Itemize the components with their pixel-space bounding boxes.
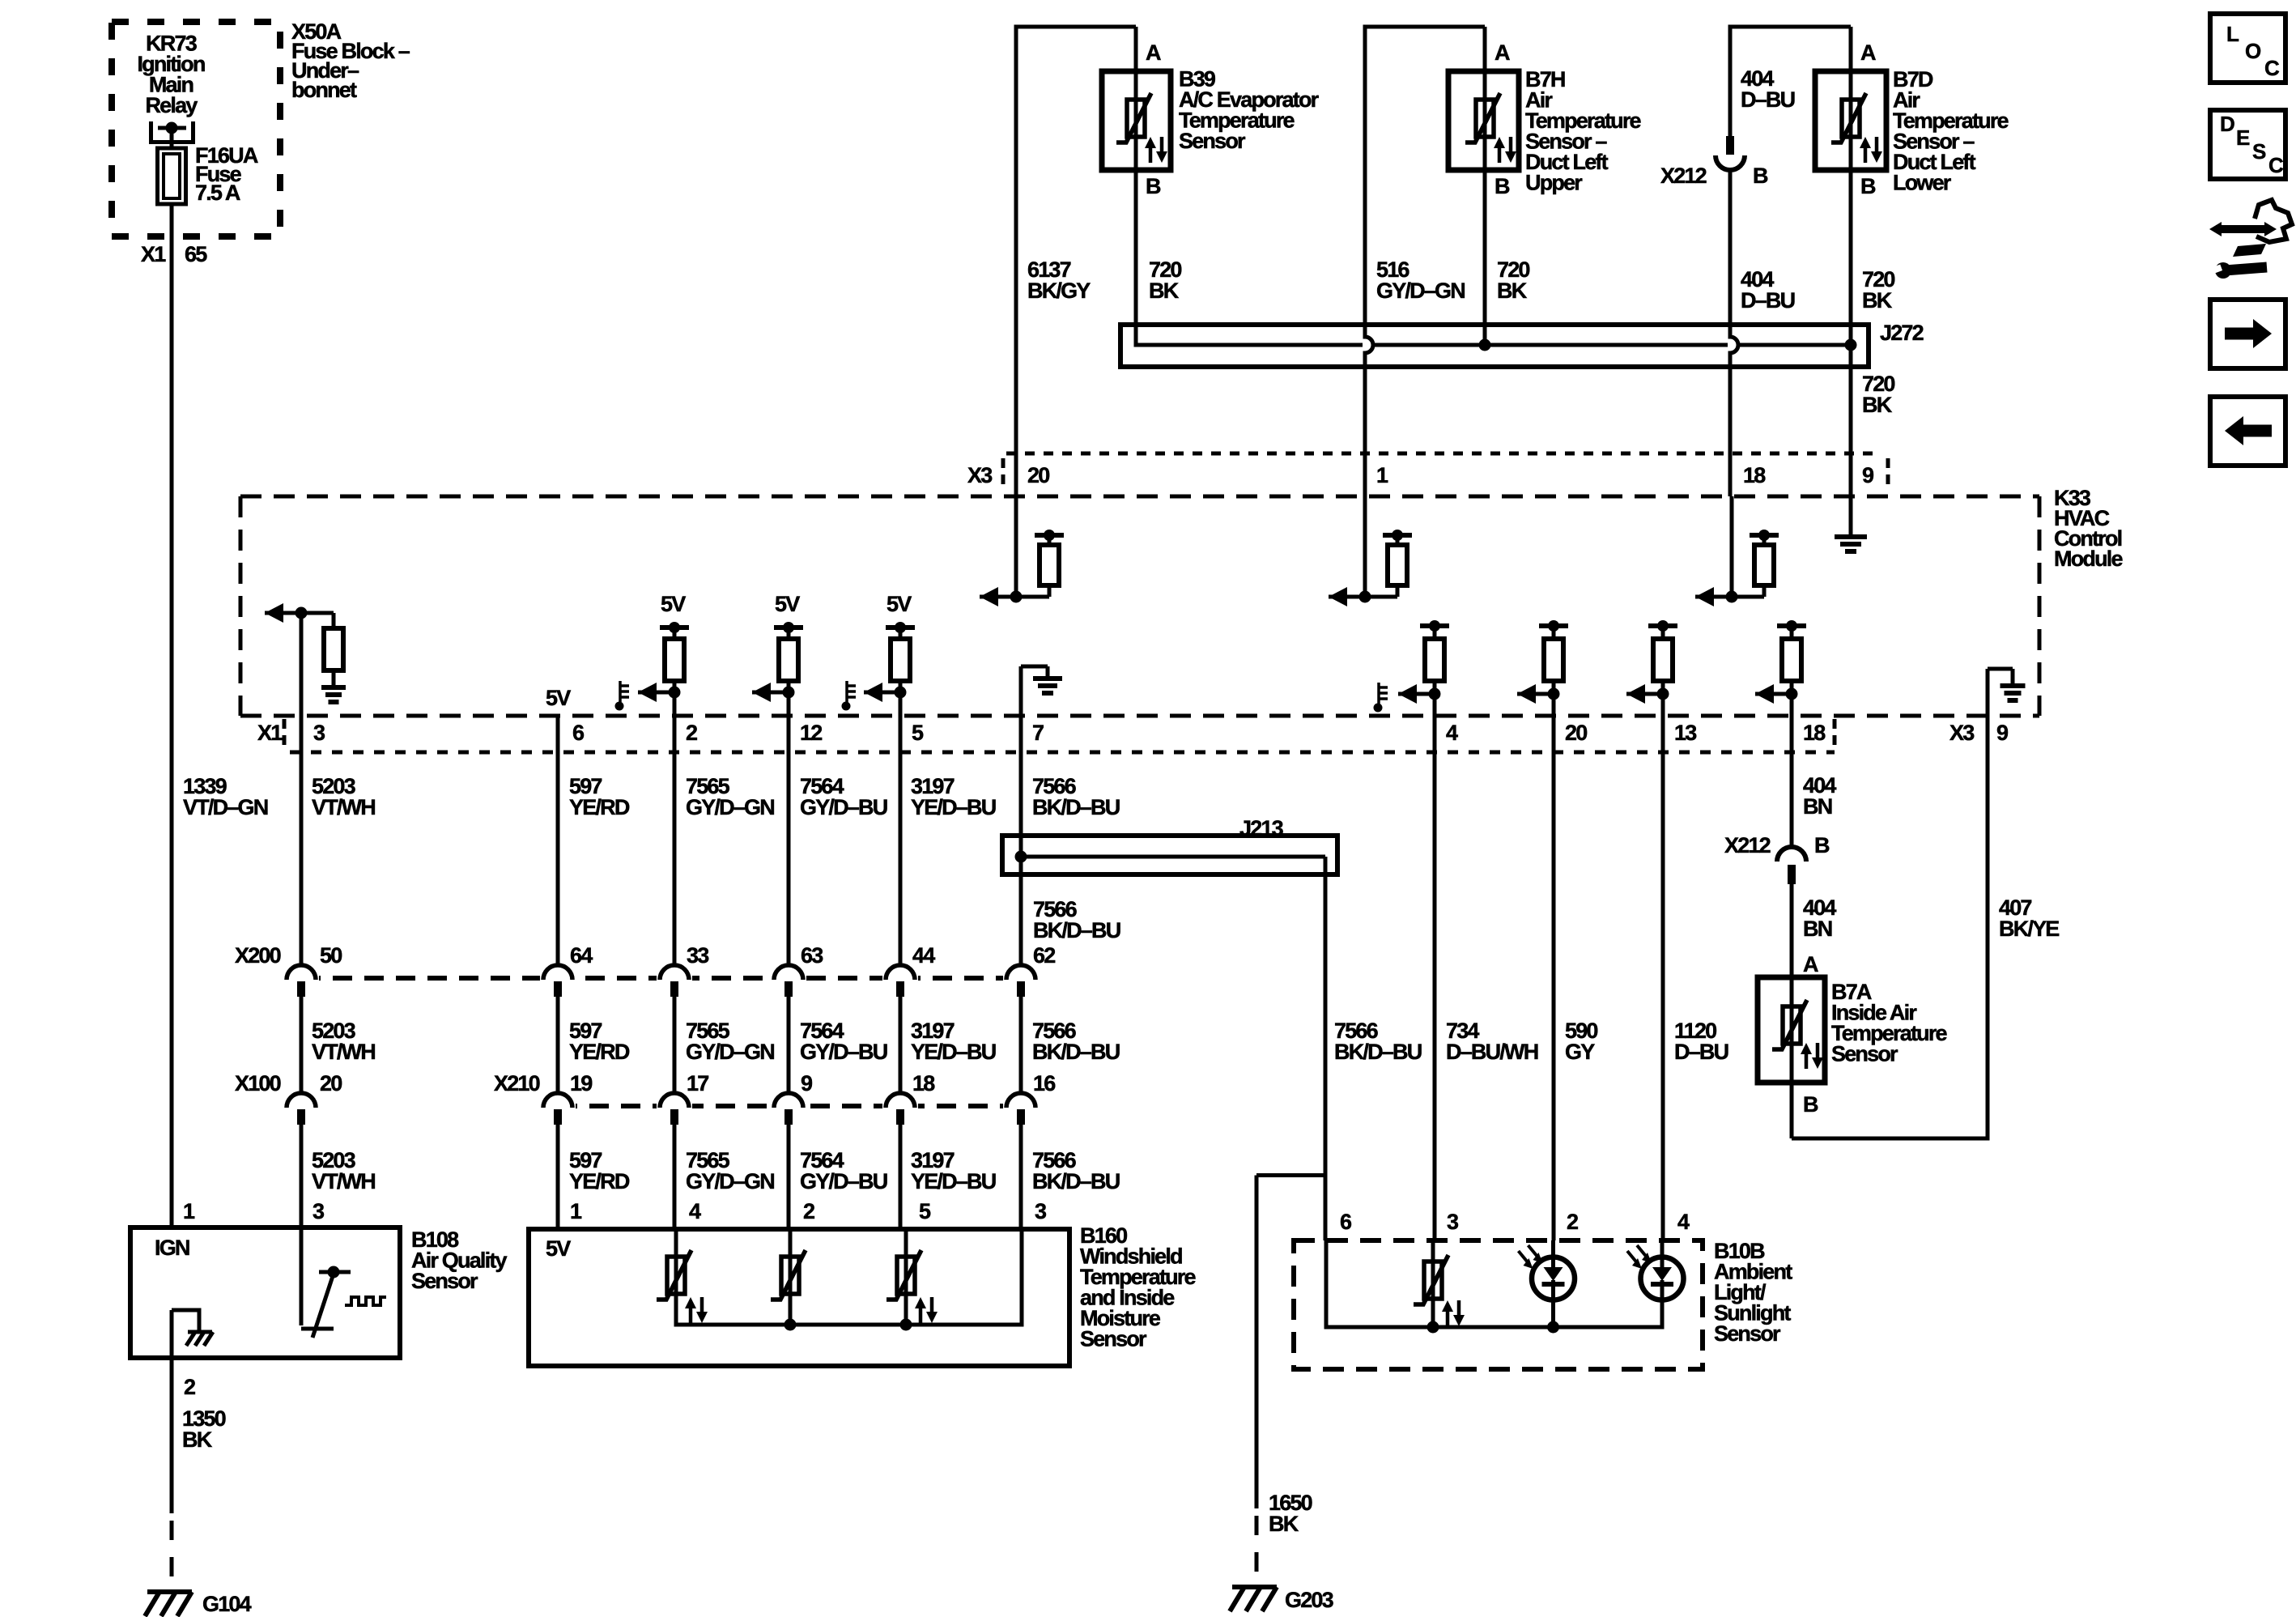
connector X3 top separator <box>1886 458 1890 491</box>
arrows in B7A <box>1801 1043 1823 1069</box>
svg-text:B: B <box>1860 174 1876 198</box>
fuse block X50A label <box>291 19 410 102</box>
junction J272 box <box>1120 325 1869 367</box>
svg-text:62: 62 <box>1033 943 1055 968</box>
wire 516 GY/D-GN top run <box>1365 25 1485 497</box>
wire label 407 BK/YE <box>1999 896 2059 941</box>
svg-text:9: 9 <box>1996 721 2009 745</box>
svg-text:A: A <box>1803 952 1818 976</box>
svg-text:16: 16 <box>1033 1071 1056 1096</box>
wire 734 D-BU/WH <box>1433 696 1437 1240</box>
pin label B (B7D) <box>1860 174 1876 198</box>
pin label 63 (X200) <box>801 943 823 968</box>
wire 1350 BK <box>170 1358 174 1585</box>
svg-text:BN: BN <box>1803 794 1832 819</box>
sensor B108 label <box>411 1227 508 1293</box>
wire 5203 VT/WH (seg1) <box>300 615 304 965</box>
pin label 3 (B160) <box>1035 1199 1047 1223</box>
pin label 3 (X1 bottom) <box>313 721 325 745</box>
svg-text:VT/WH: VT/WH <box>312 1040 375 1064</box>
icon forward-arrow box <box>2210 300 2285 368</box>
connector X200 pin 62 arc <box>1003 965 1039 997</box>
svg-text:G203: G203 <box>1285 1588 1334 1612</box>
svg-text:20: 20 <box>1565 721 1587 745</box>
svg-text:X100: X100 <box>235 1071 281 1096</box>
arrows thermistor 1 B160 <box>685 1297 708 1323</box>
svg-text:20: 20 <box>1027 463 1049 487</box>
connector X100 label <box>235 1071 281 1096</box>
pin label 9 (X3 top) <box>1862 463 1874 487</box>
svg-text:VT/WH: VT/WH <box>312 795 375 819</box>
relay KR73 label <box>137 32 204 118</box>
svg-text:X1: X1 <box>257 721 283 745</box>
svg-text:BK/YE: BK/YE <box>1999 917 2059 941</box>
svg-text:X3: X3 <box>967 463 993 487</box>
wire 597 YE/RD (seg1) <box>556 715 560 965</box>
svg-text:9: 9 <box>801 1071 813 1096</box>
svg-text:5V: 5V <box>546 1236 571 1261</box>
junction J213 label <box>1239 816 1284 840</box>
junction J213 bus <box>1015 851 1326 863</box>
svg-text:5V: 5V <box>661 592 686 616</box>
thermistor in B39 <box>1116 71 1151 170</box>
connector X1 bottom separator <box>1833 719 1837 750</box>
pin label 6 (X1 bottom) <box>572 721 585 745</box>
svg-text:GY/D–GN: GY/D–GN <box>686 1169 774 1193</box>
wire 3197 YE/D-BU (seg1) <box>899 694 903 965</box>
connector X1 bottom dotted line <box>290 751 1835 755</box>
pin label 33 (X200) <box>687 943 709 968</box>
pin label B (B7H) <box>1495 174 1510 198</box>
wire X3-9 internal ground <box>1835 496 1867 551</box>
wire X3-18 internal + resistor <box>1695 496 1779 606</box>
svg-text:18: 18 <box>912 1071 935 1096</box>
svg-text:bonnet: bonnet <box>291 78 357 102</box>
wire 6137 BK/GY top run <box>1016 25 1136 497</box>
pin label 7 (X1 bottom) <box>1032 721 1044 745</box>
pin label 12 (X1 bottom) <box>800 721 822 745</box>
connector X1 bottom label <box>257 719 284 750</box>
svg-text:D–BU/WH: D–BU/WH <box>1446 1040 1538 1064</box>
sensor B10B dashed box <box>1294 1240 1703 1369</box>
sensor B7D label <box>1893 67 2009 195</box>
svg-text:BK: BK <box>182 1427 213 1452</box>
wire 590 GY <box>1552 696 1556 1240</box>
icon back-arrow box <box>2210 397 2285 466</box>
svg-text:YE/RD: YE/RD <box>569 795 630 819</box>
svg-text:BK: BK <box>1862 393 1893 417</box>
pin label 44 (X200) <box>912 943 935 968</box>
svg-text:S: S <box>2252 139 2266 164</box>
svg-text:YE/D–BU: YE/D–BU <box>911 795 996 819</box>
svg-text:64: 64 <box>570 943 593 968</box>
bus in B10B <box>1326 1240 1662 1334</box>
wire 7564 seg2 <box>787 996 791 1095</box>
pin label 5 (X1 bottom) <box>912 721 924 745</box>
arrows in B39 <box>1145 137 1167 163</box>
wire 1120 D-BU <box>1661 696 1665 1240</box>
wire label 1120 <box>1674 1019 1728 1064</box>
wire label 7566 a <box>1032 774 1120 819</box>
pin label 64 (X200) <box>570 943 593 968</box>
pin label A (B39) <box>1146 40 1161 65</box>
svg-text:BK/D–BU: BK/D–BU <box>1032 1040 1120 1064</box>
module K33 dashed box <box>240 496 2039 716</box>
svg-text:B: B <box>1753 164 1768 188</box>
svg-text:X210: X210 <box>494 1071 540 1096</box>
svg-text:5V: 5V <box>887 592 912 616</box>
thermistor in B7H <box>1465 71 1500 170</box>
svg-text:BK/D–BU: BK/D–BU <box>1032 795 1120 819</box>
svg-text:J213: J213 <box>1239 816 1284 840</box>
pin label 2 (B108) <box>184 1375 195 1399</box>
arrows in B7H <box>1494 137 1516 163</box>
pin label 16 (X210) <box>1033 1071 1056 1096</box>
svg-text:12: 12 <box>800 721 822 745</box>
thermometer icon (X1-2) <box>615 681 630 711</box>
wire label 3197 a <box>911 774 996 819</box>
wire 7566 BK/D-BU (seg1) <box>1019 694 1023 965</box>
svg-text:D: D <box>2220 112 2235 136</box>
svg-text:63: 63 <box>801 943 823 968</box>
arrows thermistor B10B <box>1442 1300 1465 1326</box>
connector X210 pin 9 arc <box>771 1093 806 1125</box>
svg-text:17: 17 <box>687 1071 708 1096</box>
connector X200 pin 33 arc <box>657 965 692 997</box>
svg-text:BK: BK <box>1269 1512 1299 1536</box>
svg-text:C: C <box>2264 56 2280 80</box>
svg-text:X212: X212 <box>1660 164 1707 188</box>
wire 7566 BK/D-BU J213 drop <box>1324 857 1328 1240</box>
pin label 18 (X210) <box>912 1071 935 1096</box>
connector X200 label <box>235 943 281 968</box>
svg-text:BK: BK <box>1862 288 1893 313</box>
pin label 17 (X210) <box>687 1071 708 1096</box>
wire 720 BK (B7H-B) <box>1483 170 1487 345</box>
wire X3-1 internal + resistor <box>1329 496 1412 606</box>
pin label A (B7A) <box>1803 952 1818 976</box>
wire label 516 GY/D-GN <box>1376 257 1465 303</box>
svg-text:1: 1 <box>183 1199 195 1223</box>
sensor B7A label <box>1831 980 1948 1066</box>
pin label 3 (B108) <box>313 1199 325 1223</box>
svg-text:1: 1 <box>570 1199 582 1223</box>
svg-text:GY: GY <box>1565 1040 1595 1064</box>
fuse F16UA <box>158 148 186 204</box>
wire label 720 BK (B39) <box>1149 257 1181 303</box>
sensor B160 label <box>1080 1223 1197 1351</box>
arrows thermistor 3 B160 <box>915 1297 938 1323</box>
svg-text:6: 6 <box>1340 1210 1352 1234</box>
sensor B108 IGN label <box>155 1236 189 1260</box>
svg-text:5: 5 <box>912 721 924 745</box>
svg-text:X1: X1 <box>141 242 166 266</box>
junction J213 box <box>1002 836 1337 874</box>
pin label 3 (B10B) <box>1447 1210 1459 1234</box>
resistor 5V pull-up (X1-12) <box>752 592 803 702</box>
svg-text:4: 4 <box>1677 1210 1690 1234</box>
thermistor 2 in B160 <box>771 1229 806 1327</box>
resistor 5V pull-up (X1-2) <box>638 592 689 702</box>
wire 7566 seg3 <box>1019 1124 1023 1229</box>
svg-text:4: 4 <box>689 1199 701 1223</box>
svg-text:Sensor: Sensor <box>1179 129 1246 153</box>
svg-text:Sensor: Sensor <box>411 1269 478 1293</box>
junction J272 bus <box>1136 339 1857 351</box>
label 5V (X1-6) <box>546 686 571 710</box>
svg-text:YE/D–BU: YE/D–BU <box>911 1040 996 1064</box>
connector X200 pin 44 arc <box>882 965 918 997</box>
svg-text:18: 18 <box>1743 463 1766 487</box>
connector X200 dashed line <box>301 976 1021 981</box>
sensor B39 label <box>1179 67 1320 154</box>
svg-text:G104: G104 <box>202 1592 252 1616</box>
svg-text:VT/WH: VT/WH <box>312 1169 375 1193</box>
svg-text:GY/D–GN: GY/D–GN <box>686 1040 774 1064</box>
sensor B7D box <box>1815 71 1886 170</box>
svg-text:X3: X3 <box>1949 721 1975 745</box>
wire 720 BK (B7D-B) <box>1849 170 1853 496</box>
svg-text:9: 9 <box>1862 463 1874 487</box>
wire 1650 BK <box>1256 1176 1326 1581</box>
wire label 7566 (to B10B) <box>1334 1019 1422 1064</box>
icon LOC box <box>2210 14 2285 83</box>
wire label row B 5203 <box>312 1019 375 1064</box>
fuse block X50A dashed box <box>112 22 280 236</box>
wire label row B 3197 <box>911 1019 996 1064</box>
wire label 720 BK (B7H) <box>1497 257 1529 303</box>
pin label 2 (B160) <box>803 1199 814 1223</box>
svg-text:Sensor: Sensor <box>1714 1321 1781 1346</box>
connector X210 dashed line <box>558 1104 1021 1108</box>
svg-text:A: A <box>1146 40 1161 65</box>
svg-text:Upper: Upper <box>1525 171 1583 195</box>
wire label row B 597 <box>569 1019 630 1064</box>
svg-text:5: 5 <box>919 1199 931 1223</box>
connector X200 pin 50 arc <box>283 965 319 997</box>
svg-text:GY/D–GN: GY/D–GN <box>686 795 774 819</box>
svg-text:D–BU: D–BU <box>1674 1040 1728 1064</box>
resistor pull-up (X3b-13) <box>1626 620 1677 704</box>
svg-text:2: 2 <box>184 1375 195 1399</box>
pin label 13 (X1 bottom) <box>1674 721 1697 745</box>
wire label 7564 a <box>800 774 887 819</box>
sensor B7H box <box>1448 71 1519 170</box>
svg-text:B: B <box>1146 174 1161 198</box>
thermistor 3 in B160 <box>887 1229 921 1327</box>
svg-text:BN: BN <box>1803 917 1832 941</box>
pin label 20 (X1 bottom) <box>1565 721 1587 745</box>
switch in B108 <box>301 1227 386 1338</box>
relay KR73 <box>149 121 195 144</box>
wire 3197 seg3 <box>899 1124 903 1229</box>
svg-text:5V: 5V <box>546 686 571 710</box>
wire 7566 seg2 <box>1019 996 1023 1095</box>
sensor B160 5V label <box>546 1236 571 1261</box>
photodiode 4 in B10B <box>1627 1240 1684 1330</box>
fuse F16UA label <box>195 143 258 205</box>
svg-text:13: 13 <box>1674 721 1697 745</box>
pin label 1 (B108) <box>183 1199 195 1223</box>
connector X212 lower <box>1777 847 1806 884</box>
wire label row C 3197 <box>911 1148 996 1193</box>
wire label row C 7566 <box>1032 1148 1120 1193</box>
svg-text:2: 2 <box>803 1199 814 1223</box>
connector X200 pin 63 arc <box>771 965 806 997</box>
wire 404 BN lower <box>1790 884 1794 977</box>
wire 3197 seg2 <box>899 996 903 1095</box>
svg-text:IGN: IGN <box>155 1236 189 1260</box>
wire label 404 BN upper <box>1803 773 1836 819</box>
svg-text:18: 18 <box>1803 721 1826 745</box>
ground G203 label <box>1285 1588 1334 1612</box>
wire label row A <box>312 774 375 819</box>
wire label 404 D-BU lower <box>1741 267 1795 313</box>
wire 404 D-BU lower run <box>1730 171 1738 496</box>
svg-text:GY/D–BU: GY/D–BU <box>800 1169 887 1193</box>
ground G203 <box>1230 1587 1277 1611</box>
wire label row C 7564 <box>800 1148 887 1193</box>
pin label 5 (B160) <box>919 1199 931 1223</box>
svg-text:6: 6 <box>572 721 585 745</box>
wire label row C 7565 <box>686 1148 774 1193</box>
wire label 734 <box>1446 1019 1538 1064</box>
wire 404 D-BU top run <box>1730 25 1851 137</box>
ground G104 <box>145 1592 192 1616</box>
connector X212 upper labels <box>1660 164 1768 188</box>
wire X1-7 internal ground <box>1021 666 1062 716</box>
sensor B39 box <box>1102 71 1171 170</box>
svg-text:3: 3 <box>1035 1199 1047 1223</box>
connector X210 label <box>494 1071 540 1096</box>
svg-text:YE/RD: YE/RD <box>569 1040 630 1064</box>
pin label 4 (B160) <box>689 1199 701 1223</box>
wire label 6137 BK/GY <box>1027 257 1091 303</box>
pin label 50 (X200) <box>320 943 342 968</box>
svg-text:B: B <box>1814 833 1830 857</box>
resistor pull-up (X3b-20) <box>1517 620 1568 704</box>
svg-text:A: A <box>1495 40 1510 65</box>
connector X210 pin 16 arc <box>1003 1093 1039 1125</box>
resistor pull-up (X3b-4) <box>1398 620 1449 704</box>
svg-text:BK/D–BU: BK/D–BU <box>1334 1040 1422 1064</box>
connector X1 65 labels <box>141 242 207 266</box>
wire label 1339 VT/D-GN <box>183 774 268 819</box>
sensor B10B label <box>1714 1239 1792 1346</box>
svg-text:Relay: Relay <box>145 93 198 117</box>
svg-text:GY/D–BU: GY/D–BU <box>800 1040 887 1064</box>
wire label row B 7564 <box>800 1019 887 1064</box>
wire 720 BK (B39-B) <box>1134 170 1138 347</box>
svg-text:50: 50 <box>320 943 342 968</box>
svg-text:3: 3 <box>313 1199 325 1223</box>
thermistor in B10B <box>1414 1240 1448 1330</box>
svg-text:5V: 5V <box>775 592 800 616</box>
wire 7564 seg3 <box>787 1124 791 1229</box>
pin label 6 (B10B) <box>1340 1210 1352 1234</box>
svg-text:E: E <box>2236 126 2250 150</box>
svg-text:Sensor: Sensor <box>1831 1042 1898 1066</box>
pin label 2 (B10B) <box>1567 1210 1578 1234</box>
svg-text:44: 44 <box>912 943 935 968</box>
svg-text:GY/D–GN: GY/D–GN <box>1376 279 1465 303</box>
thermistor in B7D <box>1831 71 1866 170</box>
icon DESC box <box>2210 110 2285 179</box>
pin label 1 (B160) <box>570 1199 582 1223</box>
junction J272 label <box>1880 321 1924 345</box>
wire label 720 BK (B7D) <box>1862 267 1894 313</box>
wire label 1350 BK <box>182 1406 226 1452</box>
wire X1-3 internal + resistor + ground <box>265 603 346 702</box>
wire B39 pin A <box>1134 27 1138 71</box>
svg-text:D–BU: D–BU <box>1741 87 1795 112</box>
svg-text:BK: BK <box>1149 279 1180 303</box>
connector X210 pin 17 arc <box>657 1093 692 1125</box>
svg-text:YE/D–BU: YE/D–BU <box>911 1169 996 1193</box>
connector X200 pin 64 arc <box>540 965 576 997</box>
sensor B7H label <box>1525 67 1642 195</box>
arrows in B7D <box>1860 137 1882 163</box>
svg-text:VT/D–GN: VT/D–GN <box>183 795 268 819</box>
pin label 4 (B10B) <box>1677 1210 1690 1234</box>
wire label row C 5203 <box>312 1148 375 1193</box>
svg-text:Sensor: Sensor <box>1080 1327 1147 1351</box>
svg-text:33: 33 <box>687 943 709 968</box>
svg-text:4: 4 <box>1446 721 1458 745</box>
internal ground in B108 <box>172 1310 213 1358</box>
wire 407 BK/YE <box>1792 716 1990 1141</box>
svg-text:BK: BK <box>1497 279 1528 303</box>
wire label 1650 BK <box>1269 1491 1312 1536</box>
wire label 720 BK below J272 <box>1862 372 1894 417</box>
svg-text:J272: J272 <box>1880 321 1924 345</box>
pin label B (B39) <box>1146 174 1161 198</box>
pin label 18 (X3 top) <box>1743 463 1766 487</box>
ground G104 label <box>202 1592 252 1616</box>
thermometer icon (X1-5) <box>842 681 857 711</box>
svg-text:Lower: Lower <box>1893 171 1952 195</box>
pin label A (B7D) <box>1860 40 1876 65</box>
pin label 20 (X3 top) <box>1027 463 1049 487</box>
wire label row C 597 <box>569 1148 630 1193</box>
wire 7565 GY/D-GN (seg1) <box>673 694 677 965</box>
wire X3-20 internal + resistor <box>980 496 1064 606</box>
bus in B160 <box>676 1229 1022 1331</box>
photodiode 2 in B10B <box>1519 1240 1575 1330</box>
connector X100 pin 20 arc <box>287 1093 316 1125</box>
connector X3 top dotted line <box>1006 452 1877 456</box>
svg-text:X200: X200 <box>235 943 281 968</box>
svg-text:A: A <box>1860 40 1876 65</box>
thermistor in B7A <box>1772 977 1807 1083</box>
connector X210 pin 19 arc <box>540 1093 576 1125</box>
pin label 20 (X100) <box>320 1071 342 1096</box>
svg-text:2: 2 <box>686 721 697 745</box>
svg-text:YE/RD: YE/RD <box>569 1169 630 1193</box>
wire 5203 seg3 <box>300 1124 304 1227</box>
wire 7565 seg3 <box>673 1124 677 1229</box>
connector X3 bottom-right label <box>1949 721 2009 745</box>
wire label row B 7565 <box>686 1019 774 1064</box>
pin label 18 (X1 bottom) <box>1803 721 1826 745</box>
wire relay to fuse <box>170 128 174 150</box>
connector X210 pin 18 arc <box>882 1093 918 1125</box>
module K33 label <box>2054 486 2123 571</box>
wire B7H pin A <box>1483 27 1487 71</box>
pin label 4 (X1 bottom) <box>1446 721 1458 745</box>
wire 597 seg2 <box>556 996 560 1095</box>
svg-text:BK/D–BU: BK/D–BU <box>1033 918 1120 942</box>
